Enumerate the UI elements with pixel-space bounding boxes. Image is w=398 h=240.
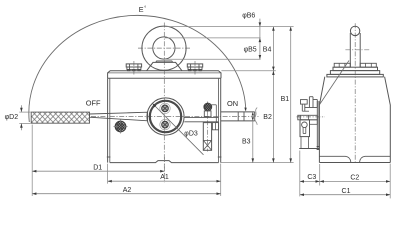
svg-text:B3: B3 — [242, 138, 251, 145]
svg-text:B4: B4 — [263, 47, 272, 54]
svg-text:φD3: φD3 — [184, 131, 198, 138]
svg-text:°: ° — [144, 6, 146, 12]
svg-text:ON: ON — [227, 99, 238, 108]
svg-text:C2: C2 — [350, 174, 359, 181]
svg-text:φB6: φB6 — [242, 13, 255, 20]
svg-text:C1: C1 — [342, 188, 351, 195]
svg-text:OFF: OFF — [86, 99, 101, 108]
svg-text:E: E — [139, 5, 144, 14]
svg-text:A2: A2 — [123, 187, 132, 194]
svg-text:B2: B2 — [263, 114, 272, 121]
svg-text:φB5: φB5 — [244, 47, 257, 54]
svg-text:A1: A1 — [160, 174, 169, 181]
svg-text:B1: B1 — [281, 96, 290, 103]
svg-text:φD2: φD2 — [5, 114, 19, 121]
svg-text:D1: D1 — [93, 164, 102, 171]
svg-text:C3: C3 — [307, 174, 316, 181]
